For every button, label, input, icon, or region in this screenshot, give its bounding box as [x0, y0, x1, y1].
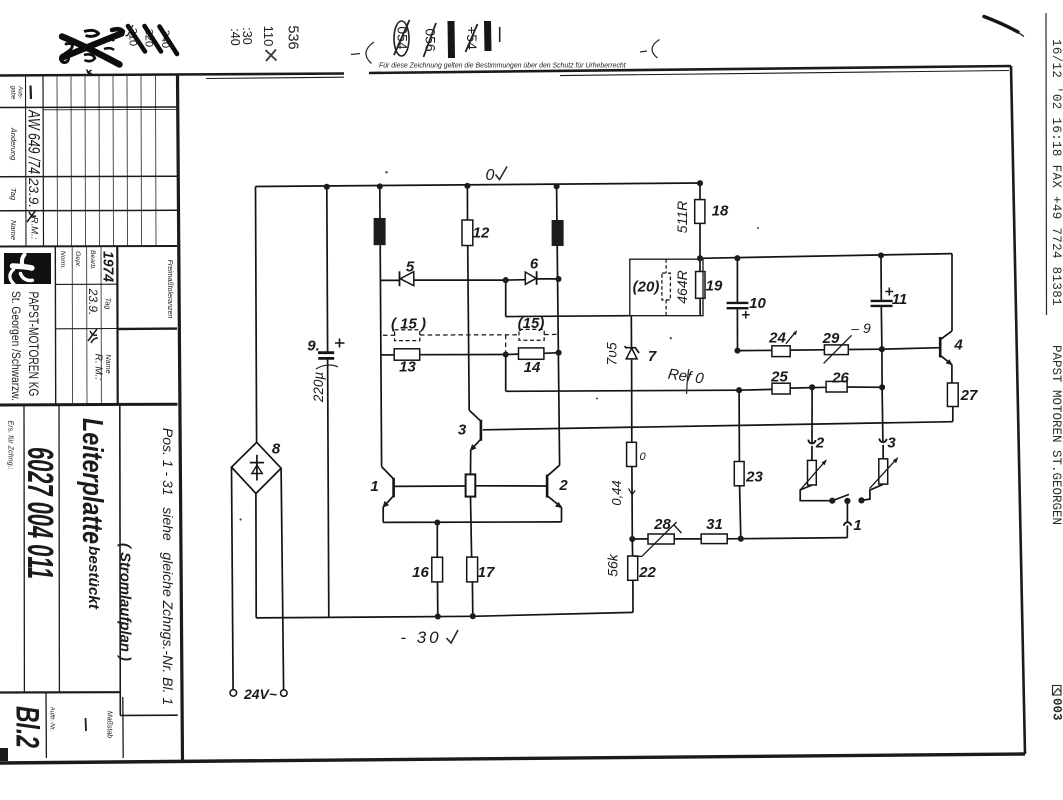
fax header line	[1045, 13, 1048, 315]
wire R12 upper lead	[466, 186, 468, 220]
wire rail to switch corner	[741, 538, 848, 539]
wire T1 emitter slant	[383, 496, 393, 507]
svg-text:14: 14	[524, 359, 541, 376]
svg-text:Name: Name	[104, 354, 113, 373]
svg-text:bestückt: bestückt	[85, 546, 102, 610]
svg-text:24: 24	[768, 330, 786, 347]
junction dot rail R18	[697, 180, 703, 186]
resistor R25 body	[772, 383, 790, 394]
potentiometer R29 slash	[824, 335, 852, 363]
wire node A drop	[505, 280, 507, 317]
wire T4 emitter slant	[941, 356, 952, 365]
trimmer R24 body	[772, 346, 790, 357]
resistor R15c body	[466, 474, 476, 496]
wire dashed link row	[383, 334, 559, 353]
svg-text:536: 536	[285, 25, 301, 49]
title area column line after number	[58, 405, 60, 693]
resistor R20 dashed body	[662, 273, 671, 300]
svg-text:1: 1	[853, 517, 861, 534]
Papst logo white glyph	[10, 255, 32, 285]
bridge B8 inner diode bar	[250, 462, 264, 464]
svg-text:1974: 1974	[100, 251, 117, 283]
resistor R23 body	[734, 462, 744, 486]
resistor R22 body	[628, 556, 638, 580]
terminal 24V left circle	[230, 690, 237, 697]
strike over +54	[466, 24, 478, 52]
company block column line	[54, 247, 56, 405]
revision table vertical line col6	[98, 76, 101, 247]
scan speck 3	[240, 518, 242, 520]
wire R22 lower lead	[632, 580, 634, 612]
pen slash thin tail	[1014, 30, 1024, 37]
resistor R21 body	[627, 442, 637, 466]
revision table row line Tag/Name	[0, 209, 177, 212]
bridge B8 inner diode triangle	[252, 465, 262, 473]
svg-text:- 30: - 30	[400, 628, 441, 647]
drawing frame top thin line right	[560, 71, 1009, 76]
revision table vertical line col5	[84, 76, 87, 247]
wire R17 upper lead continues from R15c	[471, 556, 474, 558]
wire C9 lower lead	[328, 358, 329, 617]
wire node A to box20	[506, 315, 630, 318]
paren dash left	[351, 54, 360, 55]
resistor R16 body	[432, 557, 443, 582]
scribble X end hook upper right	[112, 29, 123, 31]
wire -30V rail left	[256, 616, 473, 618]
wire R27 lower lead	[952, 407, 954, 422]
svg-text:16: 16	[412, 564, 429, 581]
svg-text:Maßstab: Maßstab	[106, 711, 113, 738]
capacitor C10 plate bottom	[727, 307, 749, 309]
zener diode D7 bar	[625, 346, 639, 353]
svg-text:27: 27	[960, 387, 978, 404]
strike stroke 2	[145, 26, 162, 52]
wire T2 base lead	[475, 485, 547, 487]
junction dot upper rail C10	[734, 255, 740, 261]
capacitor C11 plate top	[871, 300, 893, 302]
strike stroke 3	[160, 27, 178, 55]
revision table row line double thin	[43, 108, 177, 110]
revision table vertical line col4	[70, 76, 73, 247]
fuse F2 black body	[552, 220, 564, 246]
trimmer R24 arrowhead	[793, 330, 797, 335]
transistor T1 base bar	[392, 478, 395, 498]
trimmer R2t arrowhead	[822, 459, 827, 465]
wire R29 right lead	[848, 348, 882, 350]
wire K2 to trimmer	[811, 446, 813, 461]
terminal 24V right circle	[281, 690, 288, 697]
bottom row divider Bl2	[45, 693, 47, 759]
wire K1 to switch center	[846, 503, 848, 522]
svg-text:Für diese Zeichnung gelten die: Für diese Zeichnung gelten die Bestimmun…	[379, 63, 627, 70]
svg-text:9.: 9.	[307, 338, 320, 355]
trimmer R28 body	[648, 534, 674, 544]
page top border left segment	[0, 74, 344, 76]
svg-text:29: 29	[822, 330, 840, 347]
capacitor C9 plate bottom	[318, 357, 334, 360]
wire R22 upper lead	[631, 539, 633, 556]
wire R26 right lead	[847, 386, 882, 388]
svg-text:2: 2	[558, 477, 568, 494]
wire T1 collector slant	[382, 467, 394, 479]
svg-text:464R: 464R	[674, 270, 690, 303]
svg-text:0: 0	[486, 167, 495, 184]
wire fuse2 branch upper	[556, 186, 558, 220]
bridge B8 inner diode line	[256, 455, 258, 481]
wire R28 to R31	[674, 538, 701, 540]
svg-text:6027 004 011: 6027 004 011	[20, 447, 61, 579]
wire bridge right AC lead	[281, 468, 284, 690]
wire R23 upper lead	[738, 390, 740, 461]
struck heavy bar 2	[484, 21, 492, 51]
strike stroke 1	[128, 26, 145, 52]
wire C10 lower lead	[736, 308, 738, 350]
svg-text:Änderung: Änderung	[9, 127, 18, 161]
wire R20 dashed leads	[665, 259, 667, 316]
svg-text:Name: Name	[9, 220, 18, 240]
trimmer R3t body	[879, 459, 888, 484]
wire fuse1 branch upper	[379, 186, 381, 218]
svg-text:Gepr.: Gepr.	[74, 251, 81, 268]
svg-text:AW 649 /74: AW 649 /74	[25, 109, 44, 174]
small k mark below X	[87, 70, 92, 75]
value 220u tail	[316, 365, 338, 369]
scribble crossed digit arcs	[84, 30, 99, 36]
wire T3 emitter drop	[470, 450, 472, 474]
wire R17 lower lead	[471, 582, 473, 616]
revision table vertical line col3	[56, 76, 59, 247]
transistor T4 emitter arrowhead	[946, 359, 953, 365]
svg-text:25: 25	[770, 369, 788, 386]
wire right trimmer leg	[862, 484, 884, 500]
svg-text:R.M.:: R.M.:	[29, 217, 40, 240]
svg-text:Leiterplatte: Leiterplatte	[76, 418, 108, 544]
company block header underline	[55, 283, 117, 285]
strike ellipse over 054	[394, 21, 409, 56]
wire long base rail	[483, 422, 953, 430]
revision table vertical line col9	[140, 76, 143, 247]
capacitor C9 plate top	[318, 351, 334, 354]
wire R14 left lead	[506, 353, 519, 355]
junction dot R21 R22 R28	[629, 536, 635, 542]
junction dot C11 R29	[879, 346, 885, 352]
svg-text:8: 8	[272, 441, 281, 458]
svg-text:18: 18	[712, 203, 729, 220]
revision table bottom line	[0, 245, 177, 248]
title area top thick line	[0, 403, 178, 407]
wire K3 to trimmer	[882, 445, 884, 459]
transistor T2 emitter arrowhead	[555, 502, 563, 508]
revision entry dash	[29, 86, 32, 100]
Ref 0 descender stroke	[687, 369, 690, 394]
wire R13 row right	[420, 354, 506, 356]
svg-text:6: 6	[530, 256, 539, 273]
junction dot R23 R31	[738, 536, 744, 542]
svg-text:– 9: – 9	[850, 320, 871, 336]
label R28 tail mark	[674, 525, 682, 534]
wire diode5 row left	[380, 279, 399, 281]
wire T3 collector slant	[469, 410, 481, 421]
trimmer R3t arrow	[870, 459, 897, 488]
revision table vertical line col7	[112, 76, 115, 247]
svg-text:19: 19	[706, 278, 723, 295]
wire R25 to R26	[790, 386, 826, 389]
trimmer R2t arrow	[800, 462, 825, 490]
svg-text:31: 31	[706, 516, 723, 533]
svg-text:0: 0	[639, 451, 646, 463]
wire bridge minus lead	[255, 494, 257, 618]
svg-text:Auftr.-Nr.: Auftr.-Nr.	[49, 706, 56, 732]
zener diode D7 triangle	[626, 348, 637, 359]
wire node B drop to ref rail	[505, 355, 507, 392]
wire R24 row left	[738, 349, 772, 351]
bottom row top line	[0, 691, 120, 693]
svg-text:Freimaßtoleranzen: Freimaßtoleranzen	[166, 260, 173, 319]
wire R14 right lead	[544, 352, 559, 355]
fax page icon	[1053, 686, 1062, 696]
wire terminal2 branch upper	[811, 387, 813, 442]
resistor R19 body	[696, 272, 705, 299]
svg-text:St. Georgen /Schwarzw.: St. Georgen /Schwarzw.	[9, 291, 21, 401]
company block column line Bearb	[86, 247, 88, 405]
company block thick divider before Freimass cell	[116, 247, 119, 405]
svg-text:26: 26	[831, 370, 849, 387]
junction dot C10 R24	[734, 348, 740, 354]
svg-text:511R: 511R	[674, 201, 690, 233]
resistor R31 body	[701, 534, 727, 544]
wire ref0 rail to R25	[739, 388, 772, 391]
connector K2 cup	[808, 440, 815, 444]
trimmer R24 arrow	[786, 332, 796, 344]
wire R24 to R29	[790, 349, 824, 351]
bearb signature scribble	[88, 329, 98, 343]
capacitor C10 plate top	[727, 302, 749, 304]
resistor R14 body	[519, 348, 544, 359]
svg-text:24V~: 24V~	[243, 686, 277, 702]
resistor R12 body	[462, 220, 473, 246]
resistor R27 body	[947, 383, 958, 407]
junction dot emitter rail R16	[434, 519, 440, 525]
thin pen mark	[499, 27, 501, 42]
svg-text:Bearb.: Bearb.	[89, 250, 96, 270]
svg-text:5: 5	[406, 259, 415, 276]
junction dot R25 R26	[809, 384, 815, 390]
junction dot R13 R14	[503, 351, 509, 357]
title block right edge / drawing frame left border	[178, 75, 183, 763]
box20 outline	[630, 259, 703, 316]
potentiometer R29 body	[824, 345, 848, 355]
svg-text:Tag: Tag	[9, 188, 18, 201]
svg-text:4: 4	[953, 337, 963, 354]
company block column line Gepr	[71, 247, 73, 405]
Papst logo black box	[4, 253, 51, 284]
junction dot upper rail C11	[878, 252, 884, 258]
small y mark	[126, 25, 134, 36]
pen slash top right	[984, 17, 1018, 33]
wire R18 lower lead	[699, 223, 701, 258]
svg-text:( Stromlaufplan ): ( Stromlaufplan )	[117, 543, 134, 661]
wire R12 to T3 collector	[468, 246, 470, 411]
svg-text:12: 12	[473, 225, 490, 242]
wire 0V top rail	[256, 183, 701, 187]
svg-text:7υ5: 7υ5	[604, 342, 620, 365]
svg-text:Ers. für Zchng.:: Ers. für Zchng.:	[7, 420, 16, 469]
switch S1 left contact dot	[829, 498, 835, 504]
wire C11 upper lead	[880, 255, 882, 301]
svg-text:1: 1	[370, 478, 378, 495]
switch S1 center contact dot	[844, 498, 850, 504]
svg-text:110: 110	[261, 26, 276, 47]
junction dot diode6 right	[555, 276, 561, 282]
scan speck 5	[757, 227, 759, 229]
resistor R13 body	[394, 349, 420, 360]
title area column line before Pos	[119, 405, 122, 716]
capacitor C11 plus	[885, 288, 893, 296]
wire R23 lower lead	[740, 486, 741, 539]
diode D5 cathode bar	[399, 271, 401, 286]
svg-text::30: :30	[240, 27, 254, 44]
strike over 056	[424, 23, 437, 57]
transistor T2 base bar	[546, 475, 549, 498]
wire terminal3 branch upper	[881, 387, 884, 441]
svg-text:13: 13	[399, 359, 416, 376]
struck heavy bar 1	[448, 21, 456, 58]
wire R13 row left	[381, 354, 394, 356]
wire switch drop corner	[846, 526, 848, 538]
company block column line year	[100, 247, 102, 405]
wire T4 collector drop	[951, 254, 953, 331]
scan speck 1	[385, 171, 387, 173]
wire R18 upper lead	[699, 183, 701, 200]
wire T2 collector slant	[547, 465, 560, 476]
svg-text:2: 2	[815, 435, 825, 452]
paren dash right	[640, 51, 647, 52]
strike diagonal over 054	[394, 20, 410, 55]
trimmer R3t arrowhead	[893, 457, 899, 463]
svg-text:Aus-gabe: Aus-gabe	[10, 85, 24, 100]
wire T3 emitter slant	[471, 439, 481, 450]
wire R21 lower lead	[631, 467, 633, 540]
revision table row line Aenderung/Tag	[0, 175, 177, 178]
wire R16 lower lead	[437, 582, 439, 617]
wire T1 emitter drop	[382, 507, 384, 522]
wire T4 collector slant	[941, 331, 952, 339]
net label 0V checkmark	[496, 167, 508, 180]
bottom row divider Masstab	[122, 697, 124, 758]
diode D6 triangle	[525, 272, 536, 284]
svg-text:28: 28	[653, 516, 671, 533]
trimmer R28 slash	[634, 522, 677, 556]
wire left drop to bridge	[256, 187, 257, 443]
wire -30V rail right	[473, 612, 633, 616]
connector K1 cup	[844, 522, 851, 526]
revision table vertical line col10	[155, 76, 158, 247]
wire fuse2 to T2 collector	[557, 246, 559, 465]
svg-text:Bl.2: Bl.2	[10, 706, 46, 748]
resistor 15b dashed body	[519, 329, 544, 340]
scan speck 2	[670, 337, 672, 339]
wire fuse1 to T1 collector	[380, 245, 381, 466]
revision table vertical line col2	[42, 76, 45, 247]
wire C9 upper lead	[326, 186, 329, 352]
svg-text:Norm.: Norm.	[59, 251, 66, 270]
svg-text:Tag: Tag	[104, 298, 113, 310]
svg-text:23.9.: 23.9.	[26, 177, 41, 208]
scan speck 4	[596, 398, 598, 400]
drawing frame bottom border	[0, 754, 1025, 763]
fuse F1 black body	[374, 218, 386, 245]
svg-text:23.9.: 23.9.	[86, 288, 100, 316]
wire C11 lower lead	[880, 306, 883, 349]
transistor T4 base bar	[939, 337, 942, 358]
resistor R26 body	[826, 381, 847, 392]
resistor 15a dashed body	[395, 330, 420, 341]
svg-text:10: 10	[749, 295, 766, 312]
scale dash	[85, 718, 88, 731]
junction dot rail C9	[324, 184, 330, 190]
junction dot rail F2	[554, 183, 560, 189]
revision table vertical line col8	[126, 76, 129, 247]
net label -30V check	[447, 630, 459, 643]
company block mid line	[55, 328, 117, 330]
diode D5 triangle	[400, 272, 414, 286]
svg-text:R. M.:: R. M.:	[93, 354, 104, 381]
svg-text:7: 7	[648, 348, 657, 365]
resistor R17 body	[467, 557, 478, 582]
page top border right segment	[369, 66, 1011, 73]
wire T2 emitter slant	[547, 496, 561, 508]
Freimasstoleranzen cell bottom thick line	[117, 327, 177, 330]
bridge rectifier B8 diamond	[232, 442, 282, 493]
wire ref0 rail left	[506, 390, 739, 391]
svg-text:0,44: 0,44	[609, 480, 624, 505]
wire R15c lower lead	[471, 497, 472, 557]
scribble crossed digit right hook	[104, 39, 114, 50]
junction dot diode node A	[503, 277, 509, 283]
wire R19 upper lead	[699, 258, 701, 271]
paren mark right	[652, 40, 659, 59]
svg-text:PAPST MOTOREN ST.GEORGEN: PAPST MOTOREN ST.GEORGEN	[1049, 345, 1063, 525]
wire diode6 row left	[506, 279, 526, 281]
wire T1 base lead	[394, 485, 466, 487]
junction dot -30V R16	[435, 613, 441, 619]
junction dot R26 right	[879, 384, 885, 390]
svg-text:(15): (15)	[518, 315, 545, 332]
capacitor C10 plus	[742, 311, 750, 319]
svg-text:(20): (20)	[633, 279, 660, 296]
wire emitter rail	[383, 521, 561, 524]
svg-text:56k: 56k	[605, 553, 621, 577]
scribble crossed digit 2	[65, 43, 75, 53]
drawing frame top thin line left	[206, 77, 344, 78]
junction dot R14 right	[556, 350, 562, 356]
svg-text:220µ: 220µ	[311, 372, 326, 404]
svg-text:22: 22	[638, 564, 656, 581]
transistor T3 emitter arrowhead	[470, 444, 477, 451]
title area column line Ers	[23, 405, 25, 693]
svg-text:( 15 ): ( 15 )	[391, 316, 426, 333]
wire zener branch upper	[630, 316, 632, 348]
paren mark left	[366, 42, 374, 64]
svg-text:17: 17	[478, 564, 495, 581]
diode D6 cathode bar	[536, 271, 538, 285]
wire upper rail right	[700, 254, 952, 259]
svg-text:23: 23	[745, 469, 763, 486]
scribble big X left arm	[62, 37, 120, 65]
drawing frame right border	[1011, 66, 1025, 754]
wire T4 base lead	[882, 348, 940, 350]
scribble X end loop lower left	[61, 55, 69, 63]
